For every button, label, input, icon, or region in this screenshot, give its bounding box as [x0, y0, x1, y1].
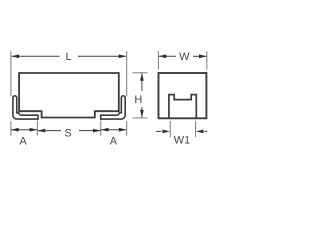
dimension W1 arrow left [162, 130, 170, 134]
extension line left (A bottom) [10, 121, 12, 135]
svg-text:S: S [64, 128, 71, 140]
dimension A left line [11, 129, 37, 131]
extension line H bottom [133, 117, 148, 119]
dimension S line right segment [79, 130, 101, 132]
dimension L line left segment [12, 55, 60, 57]
terminal lead left (side view) [13, 96, 38, 119]
capacitor body (end view) [159, 73, 207, 118]
extension line W left [157, 51, 159, 70]
svg-text:A: A [110, 136, 118, 148]
dimension H line bottom segment [141, 107, 143, 117]
dimension H arrow down [140, 110, 144, 118]
dimension A right line [101, 129, 126, 131]
extension line H top [133, 72, 148, 74]
dimension W1 arrow right [196, 130, 204, 134]
capacitor body (side view) [19, 73, 119, 118]
terminal lead (end view) [169, 95, 196, 119]
dimension L arrow left [12, 54, 20, 58]
dimension H arrow up [140, 73, 144, 81]
dimension W arrow right [199, 54, 207, 58]
extension line W1 right [195, 121, 197, 137]
svg-text:W: W [179, 51, 190, 63]
dimension L line right segment [78, 55, 126, 57]
dimension L arrow right [119, 54, 127, 58]
dimension S arrow left [38, 129, 46, 133]
dimension W arrow left [159, 54, 167, 58]
extension line W right [206, 51, 208, 70]
extension line W1 left [169, 121, 171, 137]
dimension A right arrow left [101, 128, 109, 132]
dimension H line top segment [141, 73, 143, 91]
extension line right (L top) [126, 51, 128, 97]
dimension S line left segment [38, 130, 61, 132]
svg-text:A: A [19, 136, 27, 148]
extension line left (L top) [10, 51, 12, 97]
dimension W line right segment [193, 55, 207, 57]
dimension W1 line right segment [204, 130, 207, 132]
dimension W1 line left segment [156, 130, 162, 132]
dimension A left arrow right [30, 128, 37, 132]
extension line S right [100, 121, 102, 136]
dimension W line left segment [159, 55, 176, 57]
terminal lead right (side view) [101, 96, 126, 119]
svg-text:H: H [134, 94, 142, 106]
extension line S left [36, 121, 38, 136]
svg-text:W1: W1 [174, 134, 191, 146]
dimension A right arrow right [119, 128, 127, 132]
dimension A left arrow left [11, 128, 19, 132]
extension line right (A bottom) [126, 121, 128, 135]
svg-text:L: L [65, 51, 71, 63]
dimension S arrow right [93, 129, 101, 133]
